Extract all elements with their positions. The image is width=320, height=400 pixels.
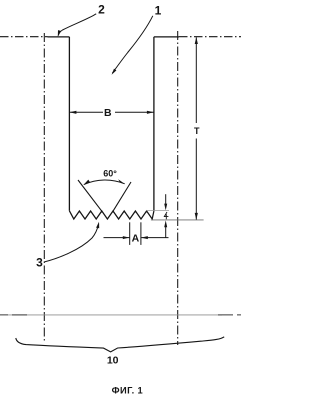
dimension B: line left segment	[70, 111, 103, 113]
wall 1: right wall inner face	[153, 37, 155, 211]
wire: top horizontal dash-dot centerline right	[179, 36, 241, 38]
dimension A: right extension line	[140, 222, 142, 245]
tooth depth dimension: upper arrow line	[165, 194, 167, 204]
svg-text:3: 3	[36, 255, 43, 269]
svg-text:10: 10	[107, 354, 119, 366]
dimension T: line lower segment	[195, 139, 197, 220]
brace 10	[16, 337, 224, 352]
wall 2: left wall inner face	[68, 37, 70, 211]
60 degree angle: arc right arrowhead	[118, 179, 125, 184]
svg-text:60°: 60°	[103, 168, 117, 178]
svg-text:B: B	[104, 107, 112, 119]
leader 2 arrowhead	[58, 30, 61, 36]
svg-text:2: 2	[98, 3, 105, 17]
wire: top horizontal dash-dot centerline left	[0, 36, 48, 38]
dimension A: left extension line	[129, 222, 131, 245]
60 degree angle: left flank extension line	[78, 180, 102, 211]
dimension B: right arrowhead	[147, 111, 154, 114]
lower line darker right dashes	[218, 314, 241, 316]
svg-text:A: A	[132, 233, 140, 245]
tooth depth dimension: lower arrowhead (up)	[164, 220, 167, 227]
tooth depth dimension: upper arrowhead (down)	[164, 204, 167, 211]
60 degree angle: dimension arc	[84, 180, 125, 185]
dimension A: right-pointing arrowhead	[123, 236, 130, 239]
right vertical dash-dot centerline	[177, 31, 179, 345]
tooth tip reference line (faint)	[146, 209, 169, 211]
leader 3 arrowhead	[96, 222, 99, 229]
lower horizontal dash-dot line (faint)	[8, 314, 222, 316]
dimension B: line right segment	[115, 111, 154, 113]
lower line darker left dashes	[0, 314, 27, 316]
tooth depth dimension: lower arrow line	[165, 227, 167, 238]
dimension T: bottom arrowhead	[195, 213, 198, 220]
tooth depth value label (small 4)	[164, 212, 168, 219]
leader for label 3	[44, 224, 99, 262]
leader for label 1	[112, 16, 153, 73]
serrated groove bottom 3: zigzag	[69, 211, 153, 219]
leader for label 2	[58, 14, 96, 36]
dimension A: right line segment	[141, 237, 168, 239]
60 degree angle: arc left arrowhead	[84, 180, 91, 185]
60 degree angle: right flank extension line	[113, 182, 131, 211]
svg-text:ФИГ. 1: ФИГ. 1	[112, 385, 143, 395]
svg-text:T: T	[194, 126, 200, 136]
dimension A: left line segment	[104, 237, 130, 239]
wall 1: right wall top edge	[154, 36, 179, 38]
dimension B: left arrowhead	[70, 111, 77, 114]
svg-text:1: 1	[155, 4, 162, 18]
wall 2: left wall top edge	[48, 36, 70, 38]
leader 1 arrowhead	[112, 69, 117, 75]
dimension T: top arrowhead	[195, 37, 198, 44]
dimension A: left-pointing arrowhead	[141, 236, 148, 239]
left vertical dash-dot centerline	[43, 33, 45, 343]
tooth bottom reference line	[151, 219, 204, 221]
dimension T: line upper segment	[195, 37, 197, 123]
